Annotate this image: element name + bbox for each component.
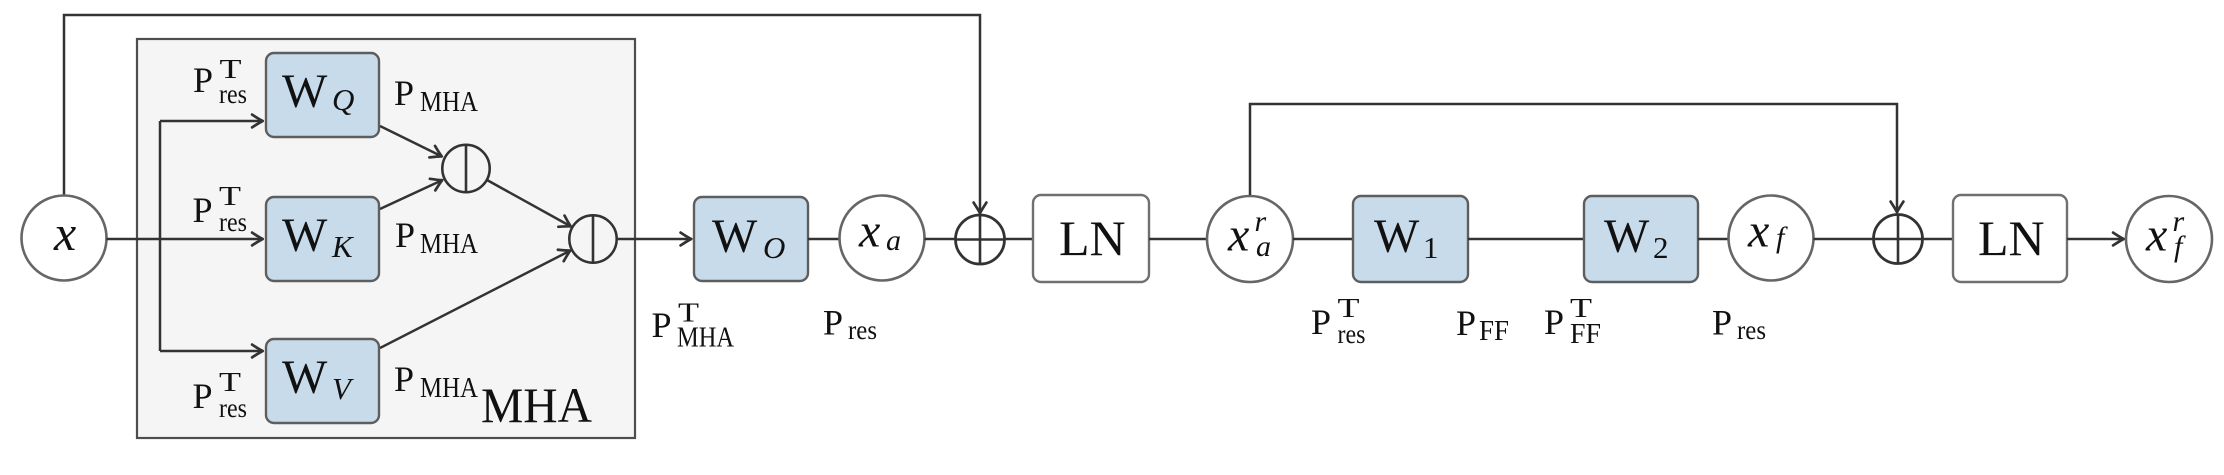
- svg-text:MHA: MHA: [420, 87, 479, 118]
- svg-text:W: W: [282, 209, 328, 262]
- node x_a: [840, 196, 925, 281]
- svg-text:W: W: [712, 210, 758, 263]
- wire W_V to concat 2: [380, 251, 571, 349]
- svg-text:P: P: [193, 60, 213, 100]
- wire branch to W_Q: [160, 120, 263, 123]
- wire x_f to adder 2: [1814, 238, 1875, 241]
- node x_a^r: [1207, 196, 1293, 282]
- concat node 2: [569, 215, 616, 262]
- wire x_a to adder 1: [925, 238, 957, 241]
- svg-text:P: P: [394, 73, 414, 113]
- adder node 1: [956, 215, 1005, 264]
- svg-text:MHA: MHA: [420, 229, 479, 260]
- svg-text:res: res: [219, 207, 247, 237]
- wire x to W_K: [107, 238, 264, 241]
- svg-text:P: P: [394, 359, 414, 399]
- node x: [22, 196, 107, 281]
- svg-text:res: res: [1338, 319, 1366, 349]
- svg-text:res: res: [1737, 315, 1766, 345]
- svg-text:a: a: [1256, 230, 1271, 263]
- svg-text:P: P: [1712, 303, 1732, 343]
- svg-text:O: O: [763, 230, 785, 265]
- wire W_Q to concat 1: [380, 126, 442, 157]
- node x_f: [1729, 196, 1814, 281]
- wire skip connection 2 (x_a^r to adder 2): [1250, 104, 1897, 213]
- box W_2: [1584, 196, 1698, 282]
- svg-text:P: P: [193, 190, 213, 230]
- svg-text:P: P: [395, 215, 415, 255]
- box W_Q: [266, 53, 379, 137]
- wire skip connection 1 (x to adder 1): [64, 15, 980, 214]
- svg-text:MHA: MHA: [677, 323, 735, 354]
- svg-text:P: P: [823, 303, 843, 343]
- svg-text:FF: FF: [1570, 319, 1601, 350]
- wire W_O to x_a: [808, 238, 840, 241]
- svg-text:P: P: [1456, 303, 1476, 343]
- svg-text:1: 1: [1423, 230, 1439, 265]
- svg-text:W: W: [1604, 210, 1650, 263]
- node x_f^r: [2126, 196, 2212, 282]
- box W_1: [1353, 196, 1468, 282]
- wire W_2 to x_f: [1698, 238, 1729, 241]
- svg-text:MHA: MHA: [481, 377, 592, 433]
- wire LN 1 to x_a^r: [1149, 238, 1207, 241]
- svg-text:FF: FF: [1479, 316, 1509, 347]
- svg-text:x: x: [53, 205, 76, 261]
- wire LN 2 to x_f^r (arrow): [2067, 238, 2124, 241]
- svg-text:W: W: [1374, 210, 1420, 263]
- concat node 1: [442, 145, 489, 192]
- wire branch to W_V: [160, 350, 263, 353]
- svg-text:K: K: [331, 229, 355, 264]
- wire adder 1 to LN 1: [1004, 238, 1033, 241]
- box LN 1: [1033, 195, 1149, 282]
- wire concat 2 to W_O: [617, 238, 692, 241]
- svg-text:V: V: [332, 371, 354, 406]
- svg-text:LN: LN: [1978, 210, 2045, 266]
- svg-text:x: x: [2145, 209, 2167, 262]
- svg-text:2: 2: [1653, 230, 1669, 265]
- svg-text:LN: LN: [1059, 210, 1126, 266]
- box W_V: [266, 339, 379, 423]
- svg-text:MHA: MHA: [420, 373, 479, 404]
- svg-text:res: res: [219, 393, 247, 423]
- svg-text:P: P: [1311, 302, 1331, 342]
- wire branch vertical: [159, 121, 162, 351]
- svg-text:P: P: [193, 376, 213, 416]
- svg-text:x: x: [1227, 209, 1249, 262]
- svg-text:x: x: [858, 205, 880, 258]
- adder node 2: [1874, 215, 1923, 264]
- box W_O: [694, 197, 808, 281]
- svg-text:W: W: [282, 65, 328, 118]
- svg-text:a: a: [886, 224, 901, 257]
- wire x_a^r to W_1: [1293, 238, 1353, 241]
- svg-text:W: W: [282, 351, 328, 404]
- svg-text:P: P: [652, 305, 672, 345]
- box LN 2: [1953, 195, 2067, 282]
- wire W_K to concat 1: [380, 180, 443, 209]
- svg-text:Q: Q: [332, 82, 354, 117]
- svg-text:P: P: [1544, 302, 1564, 342]
- wire concat 1 to concat 2: [487, 180, 571, 227]
- svg-text:res: res: [219, 79, 247, 109]
- wire W_1 to W_2: [1468, 238, 1584, 241]
- svg-text:x: x: [1747, 205, 1769, 258]
- svg-text:res: res: [848, 315, 877, 345]
- MHA container box: [137, 39, 635, 438]
- wire adder 2 to LN 2: [1922, 238, 1953, 241]
- box W_K: [266, 197, 379, 281]
